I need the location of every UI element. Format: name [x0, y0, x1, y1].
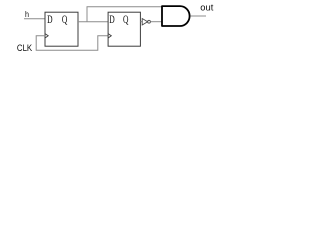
- flip-flop U1 box: [45, 12, 78, 46]
- flip-flop U2 box: [108, 12, 140, 46]
- svg-text:CLK: CLK: [17, 43, 33, 54]
- AND gate U4: [162, 6, 190, 26]
- svg-text:D: D: [109, 13, 114, 26]
- wire AND gate output: [190, 15, 206, 17]
- wire h to FF1 D input: [24, 18, 45, 20]
- flip-flop U1 clock wedge: [45, 34, 48, 38]
- wire FF2 Q output to inverter: [140, 21, 142, 23]
- svg-text:D: D: [47, 13, 52, 26]
- svg-text:h: h: [25, 9, 29, 19]
- flip-flop U2 clock wedge: [108, 34, 111, 38]
- svg-text:Q: Q: [123, 13, 129, 26]
- svg-text:out: out: [200, 3, 214, 13]
- inverter U3 bubble: [148, 20, 151, 23]
- wire CLK net to both flip-flop clock inputs: [36, 36, 108, 51]
- svg-text:Q: Q: [62, 13, 68, 26]
- wire junction riser to top rail into AND gate top input: [87, 7, 162, 22]
- inverter U3 triangle: [142, 19, 147, 26]
- wire FF1 Q output to FF2 D input: [78, 21, 108, 23]
- wire inverter output to AND gate bottom input: [151, 21, 162, 23]
